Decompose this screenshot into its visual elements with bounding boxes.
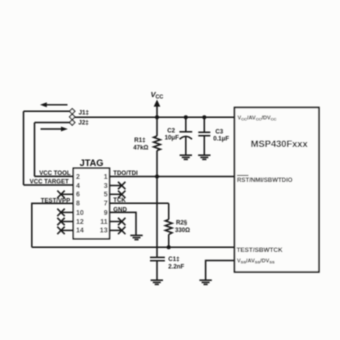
JTAG connector box (73, 168, 109, 239)
svg-text:8: 8 (76, 201, 80, 208)
resistor R1 (154, 117, 161, 176)
wire TCK (110, 202, 169, 204)
svg-text:4: 4 (76, 183, 80, 190)
svg-text:2.2nF: 2.2nF (168, 263, 184, 270)
svg-text:J1‡: J1‡ (79, 110, 90, 117)
arrow pointing right below J2 (41, 127, 68, 132)
svg-text:VCC: VCC (151, 90, 164, 100)
svg-text:TCK: TCK (113, 197, 126, 204)
svg-text:TDO/TDI: TDO/TDI (113, 170, 138, 177)
svg-text:C3: C3 (215, 128, 223, 135)
svg-text:5: 5 (104, 192, 108, 199)
svg-text:VCC TOOL: VCC TOOL (39, 170, 71, 177)
wire TDO/TDI to RST (110, 176, 235, 178)
no-connect pin 13 (110, 227, 126, 234)
resistor R2 (165, 203, 172, 247)
no-connect pin 5 (110, 191, 126, 198)
svg-text:47kΩ: 47kΩ (133, 144, 148, 151)
wire J2 pin to left (35, 122, 70, 124)
node junction TEST / R2 (167, 245, 171, 249)
no-connect pin 6 (57, 191, 73, 198)
svg-text:10μF: 10μF (165, 135, 180, 142)
wire GND from pin 9 (110, 212, 136, 235)
capacitor C3 (0.1uF) (198, 117, 210, 155)
wire left inner vertical (34, 123, 36, 177)
svg-text:10: 10 (76, 210, 84, 217)
pin numbers right column (100, 174, 108, 235)
power VCC symbol (151, 90, 164, 117)
svg-text:VCC TARGET: VCC TARGET (30, 179, 69, 186)
wire TEST/VPP from pin 8 down to TEST line (32, 203, 74, 247)
svg-text:MSP430Fxxx: MSP430Fxxx (251, 139, 309, 149)
ground at VSS (199, 280, 211, 284)
wire TEST line to MSP430 (32, 246, 235, 248)
capacitor C2 (10uF) (179, 117, 192, 155)
svg-text:TEST/VPP: TEST/VPP (41, 198, 70, 205)
wire VCC rail (75, 116, 235, 118)
MSP430 IC U1 (235, 108, 319, 273)
svg-text:R1‡: R1‡ (134, 137, 145, 144)
node junction RST / R1 / C1 (155, 175, 159, 179)
svg-text:C1‡: C1‡ (168, 256, 179, 263)
svg-text:R2§: R2§ (176, 219, 188, 226)
node junction VCC rail / C2 (184, 115, 188, 119)
capacitor C1 (2.2nF) (150, 257, 165, 280)
svg-text:330Ω: 330Ω (175, 227, 190, 234)
svg-text:3: 3 (104, 183, 108, 190)
svg-text:14: 14 (76, 228, 84, 235)
wire left outer vertical (23, 111, 25, 185)
svg-text:2: 2 (76, 174, 80, 181)
no-connect pin 14 (57, 227, 73, 234)
svg-text:RST/NMI/SBWTDIO: RST/NMI/SBWTDIO (237, 177, 293, 184)
ground under C1 (151, 280, 163, 284)
node junction VCC rail / C3 (202, 115, 206, 119)
arrow pointing left above J1 (40, 102, 68, 107)
node junction VCC rail / R1 (155, 115, 159, 119)
wire J1 pin to left (24, 110, 70, 112)
svg-text:7: 7 (104, 201, 108, 208)
svg-text:C2: C2 (167, 128, 175, 135)
no-connect pin 12 (57, 218, 73, 225)
svg-text:GND: GND (113, 206, 127, 213)
pin numbers left column (76, 174, 84, 235)
svg-text:J2‡: J2‡ (78, 119, 89, 126)
wire VSS to ground (206, 261, 235, 281)
ground under C3 (198, 155, 210, 159)
svg-text:11: 11 (100, 219, 108, 226)
ground at JTAG pin 9 (130, 235, 142, 239)
svg-text:13: 13 (100, 228, 108, 235)
ground under C2 (180, 155, 192, 159)
svg-text:9: 9 (104, 210, 108, 217)
svg-text:JTAG: JTAG (80, 158, 104, 168)
svg-text:VSS/AVSS/DVSS: VSS/AVSS/DVSS (237, 259, 275, 265)
no-connect pin 11 (110, 218, 126, 225)
svg-text:VCC/AVCC/DVCC: VCC/AVCC/DVCC (238, 116, 277, 122)
jumper header J1/J2 (70, 109, 75, 126)
svg-text:TEST/SBWTCK: TEST/SBWTCK (237, 247, 284, 254)
no-connect pin 3 (110, 182, 126, 189)
wire VCC TOOL to JTAG pin 2 (35, 175, 75, 177)
svg-text:0.1μF: 0.1μF (213, 135, 229, 142)
no-connect pin 10 (57, 209, 73, 216)
svg-text:1: 1 (104, 174, 108, 181)
wire RST node down to C1 (156, 177, 158, 258)
pin label RST/NMI/SBWTDIO (237, 175, 293, 184)
svg-text:6: 6 (76, 192, 80, 199)
wire VCC TARGET to JTAG pin 4 (24, 184, 75, 186)
svg-text:12: 12 (76, 219, 84, 226)
